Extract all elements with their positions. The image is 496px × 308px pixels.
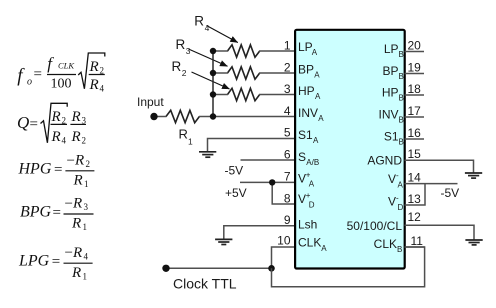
ground pin9 xyxy=(215,239,232,244)
svg-text:B: B xyxy=(399,138,404,147)
svg-text:14: 14 xyxy=(408,171,422,185)
wire pin12 to ground xyxy=(405,225,475,239)
resistor R4 xyxy=(228,45,260,57)
svg-text:B: B xyxy=(399,116,404,125)
wire bus INV_A vertical xyxy=(212,51,214,117)
svg-text:A: A xyxy=(312,48,318,57)
svg-text:B: B xyxy=(399,72,404,81)
resistor R1 xyxy=(166,110,199,122)
svg-text:V: V xyxy=(388,172,396,186)
svg-text:R: R xyxy=(73,173,83,189)
svg-text:17: 17 xyxy=(408,104,422,118)
svg-text:V: V xyxy=(388,195,396,209)
wire pin14 to pin13 vertical xyxy=(405,184,426,205)
svg-text:LPG: LPG xyxy=(18,253,50,270)
svg-text:A: A xyxy=(398,181,404,190)
wire pin7 to pin8 vertical xyxy=(272,182,294,204)
svg-text:2: 2 xyxy=(284,61,291,75)
svg-text:2: 2 xyxy=(86,159,91,169)
svg-text:BP: BP xyxy=(382,64,398,78)
svg-text:2: 2 xyxy=(182,68,187,78)
svg-text:LP: LP xyxy=(298,40,313,54)
svg-text:R: R xyxy=(89,59,99,75)
wire pin14 xyxy=(405,183,458,185)
ground pin15 xyxy=(465,173,482,178)
svg-text:8: 8 xyxy=(284,191,291,205)
node dot bus pin4 xyxy=(210,113,216,119)
svg-text:−: − xyxy=(65,245,73,261)
svg-text:+: + xyxy=(306,191,311,200)
svg-text:AGND: AGND xyxy=(367,154,402,168)
svg-text:−: − xyxy=(65,196,73,212)
svg-text:3: 3 xyxy=(284,82,291,96)
svg-text:R: R xyxy=(71,265,81,281)
svg-text:=: = xyxy=(34,67,42,83)
svg-text:Q: Q xyxy=(17,113,29,132)
svg-text:BP: BP xyxy=(298,63,314,77)
svg-text:11: 11 xyxy=(411,234,424,248)
svg-text:D: D xyxy=(398,203,404,212)
pin label S1_B xyxy=(384,130,404,147)
pin label V-_D xyxy=(388,194,404,213)
svg-text:=: = xyxy=(52,254,60,270)
svg-text:16: 16 xyxy=(408,126,422,140)
svg-text:CLK: CLK xyxy=(58,61,75,71)
svg-text:+5V: +5V xyxy=(225,186,247,200)
svg-text:2: 2 xyxy=(100,66,105,76)
svg-text:20: 20 xyxy=(408,39,422,53)
formula fo = fCLK/100 sqrt(R2/R4) xyxy=(17,53,105,93)
svg-text:CLK: CLK xyxy=(374,237,397,251)
svg-text:100: 100 xyxy=(51,77,72,92)
svg-text:+: + xyxy=(306,170,311,179)
svg-text:50/100/CL: 50/100/CL xyxy=(347,219,403,233)
svg-text:Input: Input xyxy=(137,95,164,109)
svg-text:S1: S1 xyxy=(298,128,313,142)
svg-text:A/B: A/B xyxy=(306,158,319,167)
svg-text:7: 7 xyxy=(284,170,291,184)
svg-text:B: B xyxy=(399,50,404,59)
svg-text:3: 3 xyxy=(84,202,89,212)
node dot bus pin3 xyxy=(210,91,216,97)
wire pin20 stub xyxy=(405,51,425,53)
svg-text:3: 3 xyxy=(186,46,191,56)
IC U1 (MF10 20-pin) body xyxy=(295,30,405,269)
formula LPG = -R4/R1 xyxy=(18,245,93,282)
svg-text:LP: LP xyxy=(384,42,399,56)
wire pin9 with ground xyxy=(224,226,295,239)
node Input terminal dot xyxy=(150,113,157,120)
svg-text:6: 6 xyxy=(284,148,291,162)
svg-text:-: - xyxy=(396,171,399,180)
svg-text:R: R xyxy=(72,245,82,261)
pin label INV_A xyxy=(298,106,324,123)
label R3 xyxy=(176,37,191,56)
wire pin10 xyxy=(272,247,295,268)
pin label V+_D xyxy=(298,191,315,210)
svg-text:-5V: -5V xyxy=(225,163,244,177)
svg-text:10: 10 xyxy=(277,233,291,247)
svg-text:4: 4 xyxy=(84,251,89,261)
svg-text:1: 1 xyxy=(284,39,291,53)
svg-text:o: o xyxy=(27,76,32,87)
wire pin3 xyxy=(213,94,228,96)
svg-text:4: 4 xyxy=(284,104,291,118)
svg-text:4: 4 xyxy=(100,83,105,93)
pin label LP_A xyxy=(298,40,318,57)
svg-text:D: D xyxy=(309,201,315,210)
wire pin15 AGND to ground xyxy=(405,160,474,172)
svg-text:1: 1 xyxy=(188,137,193,147)
svg-text:A: A xyxy=(313,136,319,145)
svg-text:S1: S1 xyxy=(384,130,399,144)
svg-text:=: = xyxy=(53,205,61,221)
svg-text:R: R xyxy=(74,153,84,169)
svg-text:1: 1 xyxy=(83,222,88,232)
pin label V-_A xyxy=(388,171,404,190)
wire pin5 with ground xyxy=(208,139,295,152)
svg-text:3: 3 xyxy=(82,115,87,125)
wire pin6 xyxy=(241,159,295,161)
node dot pin7 xyxy=(269,179,275,185)
svg-text:Lsh: Lsh xyxy=(298,218,317,232)
svg-text:R: R xyxy=(51,109,61,125)
svg-text:BPG: BPG xyxy=(20,204,52,221)
svg-text:INV: INV xyxy=(298,106,318,120)
svg-text:A: A xyxy=(321,244,327,253)
svg-text:19: 19 xyxy=(408,61,422,75)
svg-text:5: 5 xyxy=(284,126,291,140)
resistor R3 xyxy=(228,67,260,79)
node dot clock junction xyxy=(268,265,275,272)
svg-text:A: A xyxy=(309,180,315,189)
svg-text:−: − xyxy=(67,153,75,169)
formula HPG = -R2/R1 xyxy=(18,153,95,190)
pin label BP_A xyxy=(298,63,320,80)
svg-text:R: R xyxy=(176,37,186,52)
svg-text:R: R xyxy=(172,59,182,74)
svg-text:Clock TTL: Clock TTL xyxy=(173,276,237,292)
arrow R4 pointer xyxy=(207,26,238,43)
wire pin2 xyxy=(213,72,228,74)
wire pin11 stub xyxy=(405,246,425,248)
node dot bus pin2 xyxy=(210,70,216,76)
svg-text:S: S xyxy=(298,150,306,164)
arrow R3 pointer xyxy=(189,49,228,66)
wire pin1 xyxy=(213,50,228,52)
svg-text:1: 1 xyxy=(84,179,89,189)
pin label CLK_A xyxy=(298,236,327,253)
resistor R2 xyxy=(228,88,260,100)
svg-text:4: 4 xyxy=(205,23,210,33)
wire Clock TTL horizontal xyxy=(166,267,272,269)
wire clock to pin11 bottom run xyxy=(272,247,425,287)
svg-text:HP: HP xyxy=(382,86,399,100)
pin label S1_A xyxy=(298,128,319,145)
label R1 xyxy=(179,127,194,147)
pin label HP_A xyxy=(298,84,321,101)
svg-text:2: 2 xyxy=(82,135,87,145)
svg-text:1: 1 xyxy=(83,271,88,281)
svg-text:2: 2 xyxy=(62,115,67,125)
node Clock input dot xyxy=(162,265,169,272)
svg-text:HP: HP xyxy=(298,84,315,98)
svg-text:18: 18 xyxy=(408,82,422,96)
ground pin5 xyxy=(199,152,216,157)
svg-text:R: R xyxy=(179,127,188,142)
svg-text:B: B xyxy=(399,94,404,103)
svg-text:A: A xyxy=(318,114,324,123)
svg-text:A: A xyxy=(314,71,320,80)
wire input lead xyxy=(154,116,167,118)
arrow R2 pointer xyxy=(192,72,230,89)
node dot bus pin1 xyxy=(210,48,216,54)
pin label CLK_B xyxy=(374,237,403,254)
svg-text:=: = xyxy=(54,162,62,178)
svg-text:CLK: CLK xyxy=(298,236,321,250)
pin label HP_B xyxy=(382,86,404,103)
svg-text:-5V: -5V xyxy=(441,186,460,200)
svg-text:R: R xyxy=(72,196,82,212)
pin label LP_B xyxy=(384,42,404,59)
svg-text:HPG: HPG xyxy=(18,160,52,177)
pin label INV_B xyxy=(378,108,403,125)
svg-text:R: R xyxy=(71,129,81,145)
svg-text:A: A xyxy=(315,92,321,101)
svg-text:13: 13 xyxy=(408,192,422,206)
pin label S_A/B xyxy=(298,150,319,167)
label R4 xyxy=(194,14,209,33)
svg-text:15: 15 xyxy=(408,147,422,161)
wire pin17 stub xyxy=(405,116,425,118)
label R2 xyxy=(172,59,187,78)
wire pin19 stub xyxy=(405,73,425,75)
wire pin4 xyxy=(213,116,295,118)
wire pin7 xyxy=(240,181,295,183)
svg-text:12: 12 xyxy=(408,210,422,224)
pin label V+_A xyxy=(298,170,315,188)
wire pin18 stub xyxy=(405,94,425,96)
ground pin12 xyxy=(465,240,482,245)
pin label BP_B xyxy=(382,64,403,81)
svg-text:9: 9 xyxy=(284,213,291,227)
formula BPG = -R3/R1 xyxy=(20,196,94,233)
svg-text:-: - xyxy=(396,194,399,203)
svg-text:R: R xyxy=(71,109,81,125)
svg-text:R: R xyxy=(89,77,99,93)
svg-text:INV: INV xyxy=(378,108,398,122)
svg-text:R: R xyxy=(71,216,81,232)
formula Q = sqrt(R2/R4) R3/R2 xyxy=(17,103,87,145)
wire pin16 stub xyxy=(405,138,425,140)
svg-text:R: R xyxy=(194,14,204,29)
svg-text:R: R xyxy=(51,129,61,145)
svg-text:B: B xyxy=(397,245,402,254)
svg-text:4: 4 xyxy=(62,135,67,145)
svg-text:=: = xyxy=(30,117,38,133)
